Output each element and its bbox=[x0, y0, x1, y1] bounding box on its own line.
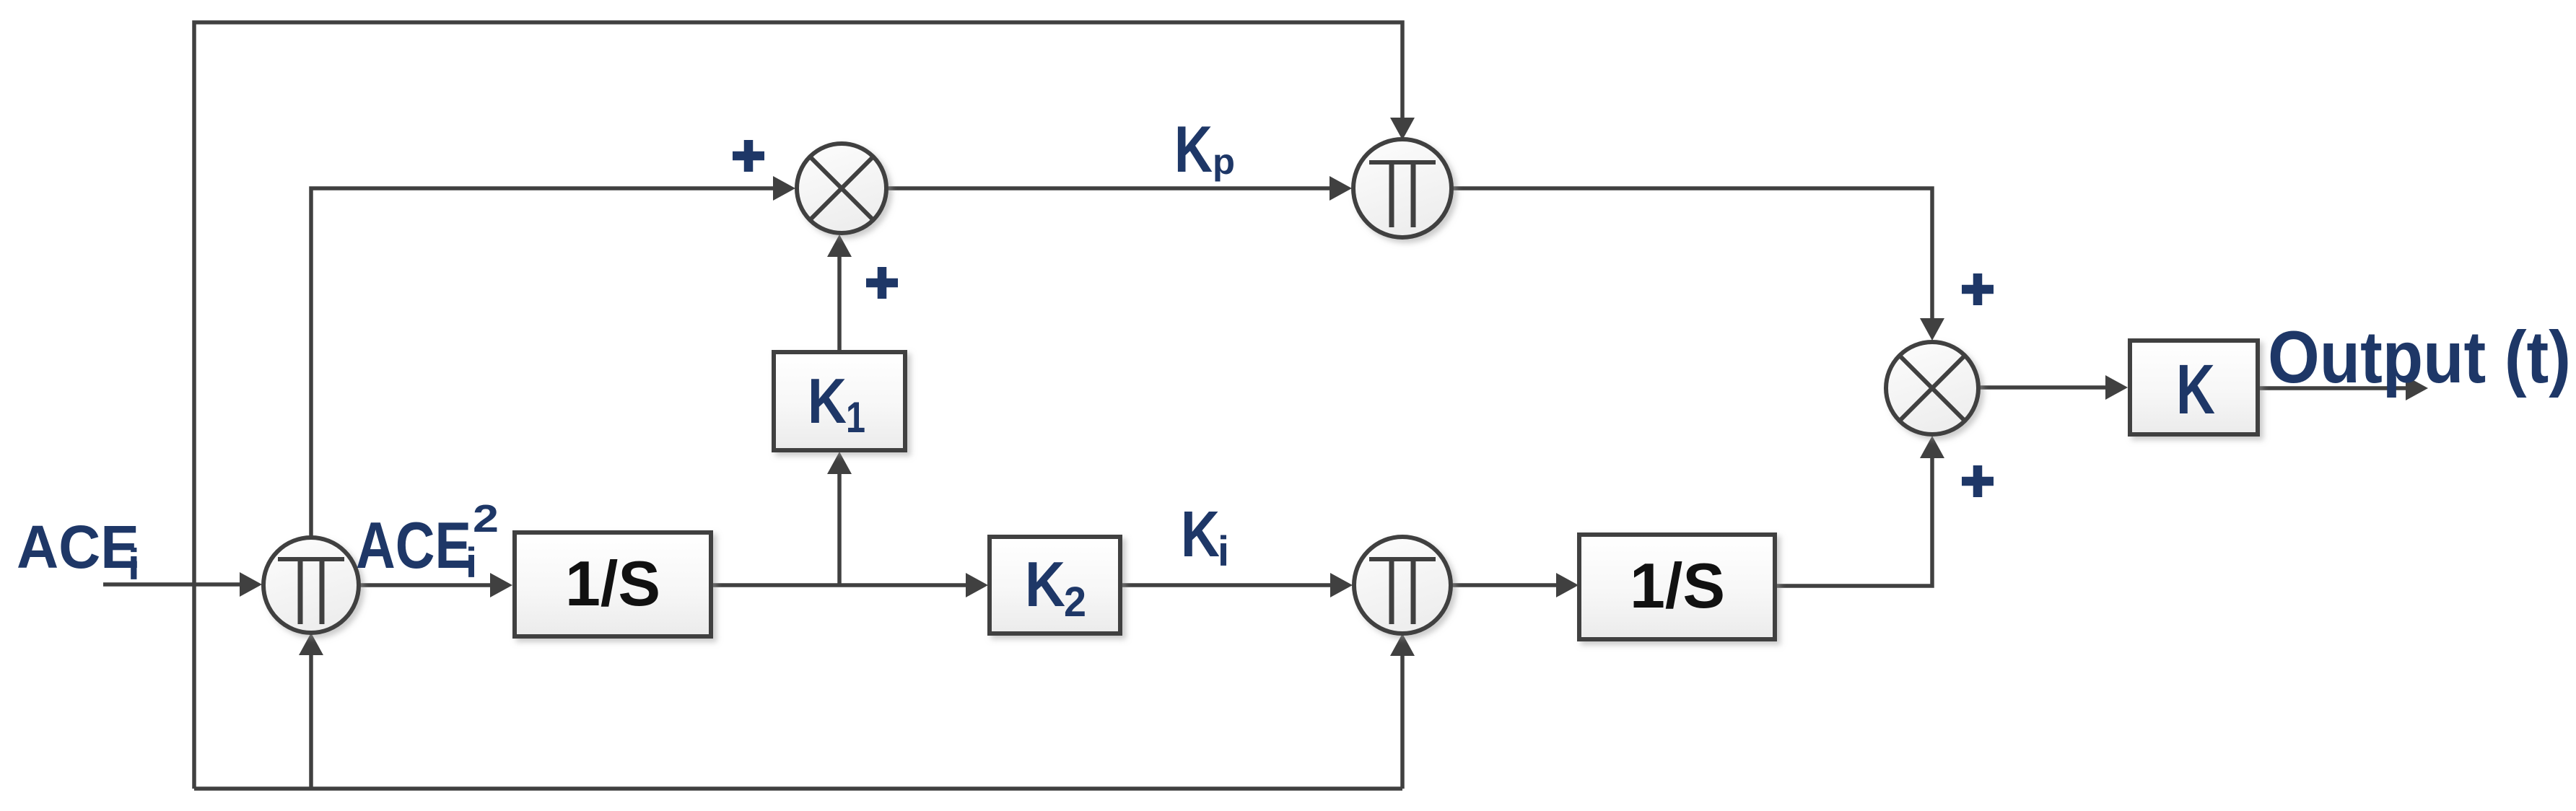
wire ACE input into multiplier A bbox=[103, 582, 240, 587]
pi symbol in multiplier A bbox=[278, 559, 344, 624]
X mark in summer B bbox=[811, 157, 873, 219]
arrowhead K1 into summer B bottom bbox=[827, 234, 852, 257]
wire bottom feedback horizontal bbox=[194, 786, 1402, 791]
wire integrator 2 output up into summer D bbox=[1772, 458, 1932, 586]
wire integrator 1 output to gain K2 bbox=[711, 583, 966, 587]
arrowhead into multiplier E left bbox=[1330, 573, 1353, 597]
wire multiplier E output to integrator 2 bbox=[1451, 583, 1556, 587]
svg-text:ACE: ACE bbox=[17, 513, 139, 581]
wire gain K output bbox=[2258, 386, 2406, 390]
multiplier circle E bbox=[1354, 537, 1451, 634]
wire multiplier C output down into summer D bbox=[1451, 188, 1932, 318]
gain box K1 bbox=[774, 352, 905, 450]
arrowhead into multiplier C top bbox=[1390, 118, 1415, 140]
svg-text:K: K bbox=[1181, 499, 1220, 571]
gain box K bbox=[2130, 341, 2258, 434]
svg-text:p: p bbox=[1213, 141, 1235, 182]
summer circle D bbox=[1886, 342, 1978, 434]
pi symbol in multiplier C bbox=[1369, 162, 1436, 227]
wire multiplier A output to integrator 1 bbox=[359, 583, 490, 587]
arrowhead into summer D top bbox=[1920, 318, 1944, 341]
svg-text:1: 1 bbox=[846, 393, 865, 442]
svg-text:ACE: ACE bbox=[356, 509, 471, 582]
arrowhead into integrator 2 bbox=[1556, 573, 1579, 597]
plus sign at summer B left input bbox=[733, 140, 764, 172]
wire summer B output to multiplier C bbox=[886, 186, 1330, 190]
svg-text:2: 2 bbox=[473, 497, 499, 540]
wire gain K1 output up into summer B bbox=[837, 257, 842, 352]
X mark in summer D bbox=[1900, 356, 1964, 420]
svg-text:i: i bbox=[128, 540, 140, 589]
svg-text:1/S: 1/S bbox=[1630, 550, 1725, 621]
wire bottom feedback riser into multiplier E bbox=[1400, 656, 1405, 789]
arrowhead ACE input into multiplier A bbox=[240, 572, 262, 597]
svg-text:i: i bbox=[466, 540, 477, 587]
arrowhead into integrator 1 bbox=[490, 573, 512, 597]
multiplier circle A bbox=[263, 538, 359, 633]
svg-text:Output (t): Output (t) bbox=[2268, 316, 2571, 398]
summer circle B bbox=[797, 144, 886, 233]
arrowhead into multiplier A bottom bbox=[299, 633, 323, 655]
plus sign at summer B bottom input bbox=[866, 267, 898, 299]
plus sign at summer D top input bbox=[1962, 273, 1994, 305]
arrowhead into summer B left bbox=[773, 176, 795, 201]
arrowhead up into gain K1 bbox=[827, 452, 852, 474]
svg-text:2: 2 bbox=[1064, 579, 1086, 626]
svg-text:1/S: 1/S bbox=[565, 548, 660, 619]
integrator box 2 (1/S) bbox=[1579, 535, 1775, 639]
svg-text:K: K bbox=[808, 365, 847, 437]
svg-text:K: K bbox=[1025, 548, 1065, 620]
arrowhead into summer D bottom bbox=[1920, 436, 1944, 458]
wire outer feedback: left vertical + top horizontal into multiplier C bbox=[194, 22, 1402, 789]
arrowhead into gain K2 bbox=[966, 573, 988, 597]
gain box K2 bbox=[990, 537, 1120, 634]
plus sign at summer D bottom input bbox=[1962, 465, 1994, 497]
wire multiplier A top branch to summer B bbox=[311, 188, 773, 538]
wire gain K2 output to multiplier E bbox=[1120, 583, 1330, 587]
arrowhead into multiplier C left bbox=[1330, 176, 1352, 201]
svg-text:K: K bbox=[1174, 113, 1213, 186]
pi symbol in multiplier E bbox=[1369, 559, 1436, 624]
svg-text:i: i bbox=[1218, 528, 1229, 575]
arrowhead output end bbox=[2406, 376, 2428, 400]
integrator box 1 (1/S) bbox=[515, 532, 711, 636]
wire summer D output to gain K bbox=[1978, 385, 2105, 390]
multiplier circle C bbox=[1353, 139, 1451, 237]
arrowhead into gain K left bbox=[2105, 375, 2128, 400]
wire bottom feedback riser into multiplier A bbox=[309, 655, 313, 789]
wire branch up into gain K1 bbox=[837, 474, 842, 585]
svg-text:K: K bbox=[2176, 350, 2215, 429]
arrowhead into multiplier E bottom bbox=[1390, 634, 1415, 656]
